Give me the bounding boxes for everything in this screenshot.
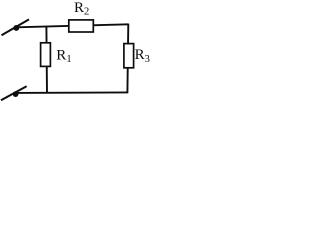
- wire bottom horizontal: [15, 91, 128, 94]
- resistor R3: [124, 44, 134, 68]
- wire top horizontal: [16, 24, 128, 27]
- wire right vertical: [126, 24, 129, 94]
- node top terminal dot: [13, 25, 19, 31]
- terminal lead bottom-left diagonal: [1, 86, 27, 100]
- terminal lead top-left diagonal: [2, 19, 30, 35]
- resistor R1: [41, 43, 51, 67]
- resistor R2: [69, 20, 94, 32]
- node bottom terminal dot: [13, 91, 19, 97]
- wire R1 branch vertical: [45, 27, 48, 93]
